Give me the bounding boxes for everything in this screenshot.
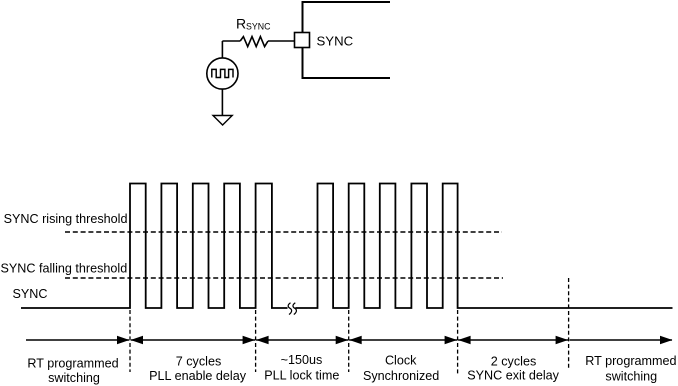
SYNC waveform (first burst of pulses) [21,184,288,309]
SYNC waveform (second burst and tail) [295,184,672,309]
svg-text:Clock: Clock [385,354,417,368]
svg-text:SYNC exit delay: SYNC exit delay [467,369,559,383]
svg-text:PLL enable delay: PLL enable delay [149,369,247,383]
wire: source top to resistor [222,40,240,42]
square-wave source V1 circle [207,58,238,89]
dashed line: SYNC rising threshold level [65,231,502,233]
svg-text:RT programmed: RT programmed [27,356,118,370]
svg-text:SYNC: SYNC [317,34,354,49]
arrow: 2 cycles SYNC exit delay [458,339,568,341]
boundary dashed line at first rising edge [129,310,131,372]
boundary dashed line at end of PLL enable delay [255,310,257,372]
boundary dashed line at end of SYNC exit delay [568,278,570,368]
svg-text:~150us: ~150us [281,353,323,367]
IC U1 outline (open box, SYNC pin side) [303,2,391,78]
resistor RSYNC zigzag [240,37,268,47]
svg-text:Synchronized: Synchronized [363,369,439,383]
break symbol on baseline [288,303,291,315]
wire: resistor to SYNC pin [268,40,295,42]
svg-text:switching: switching [48,371,100,385]
svg-text:SYNC rising threshold: SYNC rising threshold [4,212,128,226]
svg-text:switching: switching [605,369,657,383]
arrow: RT programmed switching (left) [26,339,129,341]
arrow: ~150us PLL lock time [256,339,348,341]
svg-text:R: R [236,16,246,32]
svg-text:PLL lock time: PLL lock time [264,368,339,382]
arrow: 7 cycles PLL enable delay [131,339,255,341]
svg-text:RT programmed: RT programmed [585,354,676,368]
boundary dashed line at end of PLL lock time [348,310,350,372]
dashed line: SYNC falling threshold level [65,277,503,279]
arrow: Clock Synchronized [349,339,457,341]
wire: source to horizontal wire [221,41,223,58]
boundary dashed line at last falling edge [457,310,459,374]
svg-text:2 cycles: 2 cycles [491,354,537,368]
svg-text:7 cycles: 7 cycles [176,354,222,368]
svg-text:SYNC: SYNC [246,22,271,32]
arrow: RT programmed switching (right) [570,339,672,341]
svg-text:SYNC: SYNC [13,287,48,301]
wire: source bottom to ground [221,89,223,115]
svg-text:SYNC falling threshold: SYNC falling threshold [1,261,128,275]
SYNC pin box [295,33,310,48]
ground symbol [213,116,232,126]
square-wave glyph inside source [212,69,233,77]
